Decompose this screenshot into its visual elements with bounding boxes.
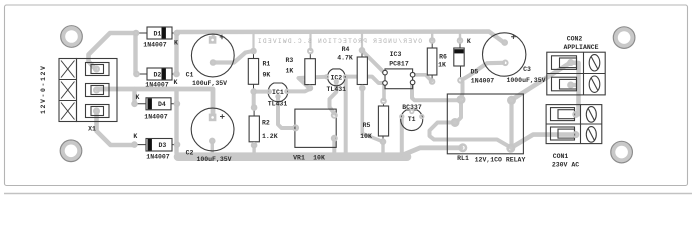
- wire stub R4 top: [361, 32, 363, 50]
- svg-text:R2: R2: [262, 119, 270, 126]
- wire band to D4L: [132, 89, 136, 104]
- capacitor C1: [191, 34, 234, 77]
- svg-text:4.7K: 4.7K: [337, 55, 353, 62]
- svg-text:D1: D1: [154, 30, 162, 37]
- svg-text:X1: X1: [88, 126, 96, 133]
- svg-text:1K: 1K: [438, 62, 446, 69]
- wire VR1 right-bottom to bus vertical: [332, 138, 336, 154]
- svg-text:OVER/UNDER PROTECTION S.C.D: OVER/UNDER PROTECTION S.C.DWIVEDI: [257, 38, 422, 45]
- wire stub R1 top: [252, 32, 254, 50]
- wire IC2 right to PC817 pin1: [345, 77, 383, 83]
- mounting hole bottom-right: [611, 141, 633, 163]
- connector CON2: [547, 52, 605, 95]
- wire relay BR to CON1 bottom pad: [512, 135, 576, 148]
- board frame: [5, 5, 688, 186]
- op-to IC2 TL431: [328, 69, 346, 86]
- svg-text:1N4007: 1N4007: [143, 42, 167, 49]
- resistor R6: [427, 43, 437, 80]
- op-to IC1 TL431: [268, 83, 288, 102]
- svg-text:1.2K: 1.2K: [262, 133, 278, 140]
- node R1 pads: [251, 49, 256, 54]
- svg-text:R3: R3: [286, 57, 294, 64]
- wire IC2 ref to VR1 right-top: [330, 82, 337, 114]
- svg-text:K: K: [136, 94, 140, 101]
- svg-text:100uF,35V: 100uF,35V: [192, 80, 227, 87]
- svg-text:1N4007: 1N4007: [146, 154, 170, 161]
- wire stub R6 top: [431, 32, 433, 41]
- wire stub C1+: [212, 32, 215, 38]
- wire R4 bottom jog: [362, 88, 383, 142]
- wire bus to relay BL: [404, 148, 461, 155]
- node D5 pads: [458, 38, 463, 43]
- svg-text:R5: R5: [363, 122, 371, 129]
- svg-text:D2: D2: [154, 71, 162, 78]
- svg-text:1K: 1K: [286, 67, 294, 74]
- wire R3 bottom to IC2 left: [299, 77, 327, 89]
- wire D5 bottom to relay TL: [461, 82, 463, 98]
- connector CON1: [546, 105, 602, 144]
- wire band-D4R-D3R-bus vertical: [174, 89, 178, 153]
- node R5 pads: [381, 99, 386, 104]
- svg-text:R1: R1: [263, 61, 271, 68]
- svg-text:9K: 9K: [263, 72, 271, 79]
- wire X1 bottom to D3 left: [97, 111, 135, 145]
- node R3 pads: [308, 49, 313, 54]
- node IC2 pads: [325, 75, 329, 79]
- wire 0V band X1 mid to C2+: [97, 89, 213, 116]
- svg-text:IC3: IC3: [390, 51, 402, 58]
- node D2 pads: [134, 72, 139, 77]
- svg-text:PC817: PC817: [389, 61, 409, 68]
- wire R5 bottom to bus: [381, 142, 384, 152]
- svg-text:10K: 10K: [360, 133, 372, 140]
- svg-text:1N4007: 1N4007: [471, 78, 495, 85]
- node X1 pads: [94, 67, 99, 72]
- svg-text:D3: D3: [159, 142, 167, 149]
- node C2 plus square pad: [209, 114, 217, 122]
- ground bus: [178, 152, 407, 161]
- mounting hole top-left: [61, 26, 83, 48]
- node CON2 pads: [568, 60, 573, 65]
- svg-text:CON1: CON1: [553, 153, 569, 160]
- wire T1 emitter to bus: [400, 117, 404, 153]
- node C1 plus square pad: [209, 36, 217, 44]
- wire PC817 pin3 to R6 bottom: [413, 75, 432, 81]
- node relay pads: [458, 96, 464, 102]
- wire top rail: [177, 32, 504, 43]
- resistor R3: [305, 53, 316, 86]
- diode D1: [138, 27, 175, 39]
- node C1 minus pad: [211, 60, 216, 65]
- diode D4: [136, 98, 175, 110]
- svg-text:K: K: [174, 40, 178, 47]
- svg-text:K: K: [467, 38, 471, 45]
- trimmer VR1: [295, 109, 336, 147]
- svg-text:T1: T1: [408, 116, 416, 123]
- wire R4 top to PC817 pin4: [362, 51, 383, 72]
- svg-text:12V,1CO RELAY: 12V,1CO RELAY: [475, 157, 526, 164]
- diode D2: [138, 68, 175, 80]
- svg-text:K: K: [133, 133, 137, 140]
- node VR1 pads: [293, 125, 298, 130]
- wire relay TL to ML: [456, 101, 461, 123]
- wire C2- to bus: [211, 141, 214, 153]
- svg-text:1N4007: 1N4007: [145, 82, 169, 89]
- wire D5 bottom to C3 minus: [463, 63, 504, 80]
- mounting hole bottom-left: [60, 140, 82, 162]
- capacitor C3: [483, 33, 526, 76]
- node C3 pads: [502, 40, 507, 45]
- svg-text:APPLIANCE: APPLIANCE: [563, 44, 598, 51]
- wire PC817 pin2 down to R5 top: [382, 83, 386, 100]
- svg-text:TL431: TL431: [268, 100, 288, 107]
- resistor R5: [378, 103, 388, 140]
- node D4 pads: [132, 102, 137, 107]
- svg-text:12V-0-12V: 12V-0-12V: [40, 64, 47, 114]
- diode D5: [454, 43, 464, 79]
- svg-text:RL1: RL1: [457, 155, 469, 162]
- svg-text:D5: D5: [471, 68, 479, 75]
- svg-text:VR1: VR1: [293, 154, 305, 161]
- wire C1- to R1 top: [213, 51, 253, 63]
- wire PC817 pin down to relay TL: [412, 84, 458, 100]
- node R2 pads: [252, 105, 257, 110]
- node D1 pads: [134, 31, 139, 36]
- node IC1 pads: [268, 90, 272, 94]
- wire IC1 ref to VR1 left: [278, 97, 295, 129]
- wire R2 bottom to bus: [252, 145, 255, 153]
- optocoupler IC3 PC817: [383, 69, 415, 89]
- svg-text:C1: C1: [186, 72, 194, 79]
- svg-text:10K: 10K: [313, 154, 325, 161]
- node R4 pads: [360, 48, 365, 53]
- node T1 pads: [400, 115, 404, 119]
- wire relay TR to BR vertical: [509, 100, 513, 148]
- svg-text:1000uF,35V: 1000uF,35V: [506, 77, 545, 84]
- wire IC2 right down to bus: [344, 78, 348, 155]
- node C2 minus pad: [210, 139, 215, 144]
- svg-text:230V AC: 230V AC: [552, 161, 579, 168]
- wire relay TR to CON2 top pad: [513, 63, 570, 99]
- resistor R4: [357, 52, 367, 86]
- wire D1L-D2L vertical: [133, 33, 137, 74]
- svg-text:100uF,35V: 100uF,35V: [196, 156, 231, 163]
- node R6 pads: [430, 38, 435, 43]
- svg-text:C3: C3: [523, 66, 531, 73]
- wire D1R-D2R vertical: [174, 33, 178, 74]
- wire stub R3 top: [309, 32, 311, 50]
- svg-text:1N4007: 1N4007: [144, 114, 168, 121]
- resistor R1: [248, 53, 258, 90]
- svg-text:R6: R6: [439, 54, 447, 61]
- wire stub D5 top: [459, 32, 461, 41]
- mounting hole top-right: [613, 27, 635, 49]
- wire X1 top to D1 left: [89, 33, 137, 69]
- svg-text:TL431: TL431: [327, 86, 347, 93]
- svg-text:K: K: [174, 79, 178, 86]
- node D3 pads: [132, 142, 137, 147]
- resistor R2: [249, 110, 259, 144]
- wire relay ML contact run: [430, 123, 511, 148]
- node CON1 pads: [573, 112, 578, 117]
- wire R1 bottom to IC1 left: [254, 90, 270, 94]
- transistor T1 BC337: [401, 110, 423, 131]
- connector X1: [59, 59, 117, 122]
- svg-text:D4: D4: [158, 101, 166, 108]
- wire CON2 pads to CON1 top vertical: [571, 63, 579, 115]
- wire R1 bottom to R2 top: [252, 92, 256, 108]
- svg-text:C2: C2: [186, 150, 194, 157]
- bottom rule line: [4, 193, 692, 195]
- svg-text:R4: R4: [342, 46, 350, 53]
- capacitor C2: [191, 108, 234, 151]
- wire CON2 bottom pad stub: [571, 83, 579, 87]
- diode D3: [136, 139, 175, 152]
- wire IC1 right to R3 bottom: [287, 89, 310, 91]
- relay RL1: [447, 94, 523, 154]
- svg-text:CON2: CON2: [567, 36, 583, 43]
